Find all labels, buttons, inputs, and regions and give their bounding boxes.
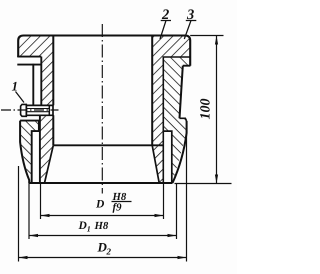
hatch left bushing wall upper — [41, 57, 53, 106]
arrow D1 right — [168, 234, 177, 237]
svg-text:H8: H8 — [94, 220, 109, 232]
dim line 100 — [216, 36, 218, 184]
screw thread lines — [26, 109, 49, 112]
bottom face extension line right — [175, 183, 232, 185]
dim line D2 — [19, 257, 187, 259]
screw axis centerline — [1, 109, 59, 111]
right boundary part2/part3 — [163, 57, 190, 183]
arrow D left — [41, 214, 50, 217]
right lower step with chamfer — [180, 118, 187, 121]
bottom face — [29, 182, 172, 184]
recess floor and step — [20, 121, 39, 183]
arrow D right — [155, 214, 164, 217]
arrow D2 left — [19, 256, 28, 259]
bushing outer left edge upper — [40, 57, 42, 106]
bushing hole bottom edge — [53, 144, 163, 146]
bushing outer left edge lower — [39, 115, 41, 183]
arrow up 100 — [215, 36, 218, 45]
hatch left flange (part 3 flange) — [18, 36, 53, 57]
extension line D2 right — [186, 130, 188, 262]
right flange bottom step — [183, 65, 191, 67]
svg-text:1: 1 — [12, 79, 19, 94]
svg-text:100: 100 — [198, 99, 213, 120]
extension line D left — [40, 183, 42, 219]
extension line D1 left — [28, 183, 30, 239]
arrow down 100 — [215, 175, 218, 184]
dim line D — [41, 215, 164, 217]
screw body outline — [26, 105, 53, 115]
svg-text:1: 1 — [87, 225, 91, 234]
svg-text:D: D — [95, 199, 105, 211]
right discharge cone — [152, 145, 159, 183]
hatch right holder wall (part 2) — [163, 57, 190, 183]
extension line D2 left — [18, 166, 20, 262]
hatch right flange (part 3 flange) — [152, 36, 190, 58]
svg-text:2: 2 — [106, 247, 112, 257]
right lower cavity ledge and wall — [163, 131, 172, 183]
slot band bottom — [17, 64, 41, 66]
bore right edge — [151, 36, 153, 146]
arrow D1 left — [29, 234, 38, 237]
label 3 underline and leader — [184, 21, 196, 40]
hatch left holder wall (part 2) — [20, 121, 39, 183]
bore left edge — [52, 36, 54, 146]
slot column left edge upper — [32, 64, 34, 105]
left flange bottom — [17, 56, 41, 58]
arrow D2 right — [178, 256, 187, 259]
dim line D1 — [29, 235, 177, 237]
vertical centerline — [101, 24, 103, 194]
left discharge cone — [45, 145, 54, 183]
top face extension line right — [190, 35, 223, 37]
hatch right bushing stem + foot — [152, 57, 163, 183]
right holder outer lower and taper — [173, 121, 187, 183]
leader 1 — [16, 92, 25, 103]
extension line D1 right — [176, 183, 178, 239]
screw point boundary — [48, 105, 50, 115]
extension line D right — [163, 183, 165, 219]
right holder outer upper — [180, 66, 183, 119]
screw head — [21, 104, 27, 116]
hatch left bushing wall lower + foot — [40, 115, 54, 183]
left outer edge and taper — [20, 121, 29, 183]
label 2 underline and leader — [160, 21, 171, 40]
outline: top face with flange sides — [18, 36, 190, 66]
svg-text:f9: f9 — [113, 202, 123, 214]
